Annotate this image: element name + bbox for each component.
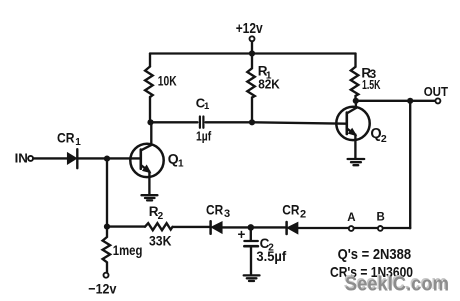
ground Q2 emitter (348, 159, 365, 165)
svg-text:SeekIC.com: SeekIC.com (345, 274, 449, 296)
capacitor C1 (196, 95, 212, 143)
wire bottom rail left (107, 225, 145, 227)
watermark (344, 272, 449, 295)
ground C2 (244, 275, 260, 281)
wire CR3 to CR2 (222, 226, 287, 228)
svg-text:Q's = 2N388: Q's = 2N388 (338, 246, 412, 263)
junction bottom left (104, 224, 110, 230)
svg-text:CR: CR (57, 129, 75, 145)
junction R3 Q2 collector (353, 98, 359, 104)
wire left node vertical (106, 159, 108, 227)
svg-text:3.5µf: 3.5µf (256, 249, 286, 264)
svg-text:1: 1 (178, 159, 184, 170)
junction Q1 collector node (147, 119, 153, 125)
wire 10K branch top (149, 54, 151, 67)
wire top rail (150, 52, 356, 54)
wire feedback vertical (409, 101, 411, 228)
svg-text:3: 3 (224, 208, 230, 220)
svg-text:+: + (238, 227, 246, 242)
svg-text:10K: 10K (158, 73, 177, 89)
svg-text:2: 2 (158, 211, 164, 222)
diode CR2 (282, 202, 306, 235)
wire OUT rail (356, 100, 436, 102)
wire CR2 to corner (298, 227, 411, 229)
wire IN to diode (33, 157, 67, 159)
wire C2 top (250, 227, 252, 240)
svg-text:1: 1 (75, 137, 81, 148)
wire R2 to CR3 (173, 226, 211, 228)
svg-text:1.5K: 1.5K (362, 77, 381, 92)
svg-text:82K: 82K (258, 77, 280, 92)
node IN (15, 151, 33, 166)
transistor Q1 (130, 122, 184, 195)
wire +12V stub (251, 41, 253, 53)
power -12V terminal (88, 273, 116, 297)
node OUT (424, 84, 448, 103)
ground Q1 emitter (142, 195, 158, 200)
resistor R3 (351, 54, 381, 101)
junction top rail R1 (249, 50, 255, 56)
junction C2 top (248, 224, 255, 231)
svg-text:+12v: +12v (236, 21, 263, 37)
wire diode to Q1 base (77, 157, 141, 159)
diode CR1 (57, 129, 81, 168)
svg-text:−12v: −12v (88, 280, 116, 296)
svg-text:1: 1 (204, 101, 210, 112)
svg-text:A: A (347, 212, 355, 224)
svg-text:33K: 33K (149, 233, 172, 248)
wire C2 bottom (250, 247, 252, 275)
junction IN node (104, 156, 110, 162)
svg-text:1µf: 1µf (196, 129, 212, 143)
capacitor C2 (238, 227, 287, 264)
svg-text:CR: CR (282, 202, 299, 218)
wire C1 right to Q2 base (206, 122, 347, 123)
svg-text:CR: CR (206, 202, 223, 218)
node A (347, 212, 355, 231)
svg-text:1meg: 1meg (113, 242, 143, 258)
resistor 10K (145, 67, 177, 98)
svg-text:IN: IN (15, 151, 28, 166)
svg-text:2: 2 (300, 208, 306, 220)
power +12V terminal (236, 21, 263, 41)
resistor 1meg (103, 227, 143, 273)
transistor Q2 (336, 101, 387, 159)
wire 10K to C1 node (149, 97, 151, 122)
svg-text:OUT: OUT (424, 84, 448, 99)
wire C1 left (151, 121, 198, 123)
junction OUT rail feedback (407, 98, 413, 104)
junction R1 bottom node (249, 119, 255, 125)
resistor R2 (145, 204, 173, 249)
node B (377, 211, 385, 230)
svg-text:B: B (377, 211, 385, 223)
resistor R1 (247, 54, 280, 123)
svg-text:2: 2 (381, 133, 387, 145)
diode CR3 (206, 202, 230, 234)
